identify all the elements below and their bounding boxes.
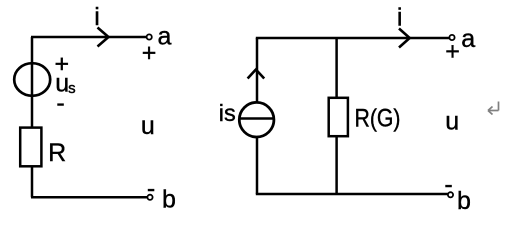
- wire top (right circuit): [256, 37, 450, 40]
- svg-text:R(G): R(G): [355, 105, 401, 133]
- svg-text:-: -: [56, 89, 64, 117]
- wire bottom: [31, 196, 147, 199]
- current source bar: [240, 117, 275, 120]
- wire left vertical: [31, 37, 34, 197]
- node a (left): [147, 34, 152, 39]
- svg-text:i: i: [397, 4, 403, 32]
- wire bottom (right circuit): [256, 193, 448, 196]
- svg-text:+: +: [142, 39, 157, 67]
- wire middle vertical: [335, 38, 338, 194]
- pilcrow return mark: [488, 102, 499, 115]
- voltage source us: [14, 63, 50, 96]
- wire left vertical lower (right circuit): [256, 137, 259, 195]
- wire left vertical upper (right circuit): [256, 38, 259, 103]
- svg-text:u: u: [445, 107, 459, 135]
- svg-text:u: u: [141, 112, 155, 140]
- svg-text:is: is: [219, 100, 236, 126]
- svg-text:+: +: [445, 38, 460, 66]
- current source is: [239, 102, 274, 137]
- node b (left): [147, 195, 152, 200]
- svg-text:b: b: [457, 187, 471, 213]
- node b (right): [448, 192, 453, 197]
- svg-text:R: R: [48, 139, 66, 167]
- node a (right): [449, 35, 454, 40]
- svg-text:a: a: [461, 25, 475, 53]
- wire top: [31, 36, 147, 39]
- svg-text:a: a: [158, 23, 172, 51]
- svg-text:b: b: [162, 186, 176, 214]
- current arrow i (right): [399, 29, 410, 48]
- resistor R: [20, 128, 41, 167]
- svg-text:s: s: [68, 80, 76, 97]
- current source arrow (up chevron): [248, 70, 265, 79]
- current arrow i (left): [98, 28, 109, 47]
- svg-text:i: i: [94, 3, 100, 31]
- resistor R(G): [329, 98, 348, 136]
